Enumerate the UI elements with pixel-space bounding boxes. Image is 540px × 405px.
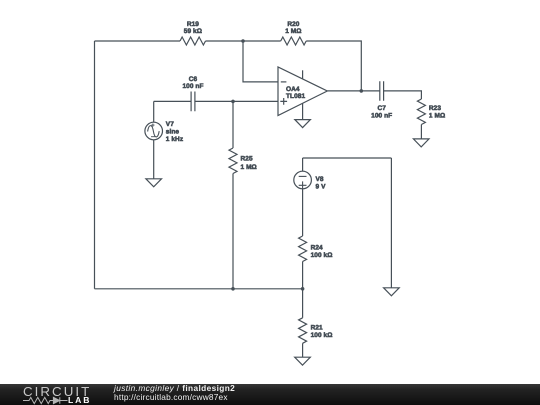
wire left rail <box>94 41 96 289</box>
wire R24 to node D <box>302 262 304 289</box>
resistor R23 <box>417 99 425 125</box>
wire R20 to output node <box>306 41 361 91</box>
resistor R21 <box>299 318 307 344</box>
capacitor C7 <box>380 81 384 101</box>
svg-text:V8: V8 <box>316 175 324 183</box>
wire node B down to R25 <box>232 101 234 148</box>
ground under V7 <box>146 179 162 187</box>
wire node A to op-amp inverting input <box>243 41 278 82</box>
resistor R19 <box>180 37 206 45</box>
svg-text:100 kΩ: 100 kΩ <box>311 251 333 259</box>
wire right branch down <box>390 158 392 288</box>
wire top from left rail to R19 <box>95 40 181 42</box>
wire R19 to R20 <box>206 40 281 42</box>
svg-text:R23: R23 <box>429 104 441 112</box>
credit line 1 <box>114 384 235 392</box>
svg-text:R24: R24 <box>311 243 323 251</box>
wire V8 top rail <box>303 157 392 159</box>
svg-text:V7: V7 <box>166 120 174 128</box>
svg-text:1 MΩ: 1 MΩ <box>285 27 301 35</box>
wire V7 to C6 <box>154 100 191 102</box>
capacitor C6 <box>191 92 195 112</box>
svg-text:100 nF: 100 nF <box>371 111 392 119</box>
wire C6 to op-amp non-inverting input <box>195 100 278 102</box>
resistor R20 <box>281 37 307 45</box>
voltage source V7 <box>145 101 163 178</box>
svg-text:59 kΩ: 59 kΩ <box>184 27 202 35</box>
resistor R24 <box>299 236 307 262</box>
junction node C (R25/bottom rail) <box>231 287 235 291</box>
svg-text:100 nF: 100 nF <box>182 82 203 90</box>
svg-text:1 kHz: 1 kHz <box>166 135 184 143</box>
wire R23 to ground <box>420 125 422 139</box>
svg-text:R25: R25 <box>241 155 253 163</box>
ground under op-amp <box>295 120 311 128</box>
svg-text:C7: C7 <box>377 104 385 112</box>
logo doodle wire resistor diode <box>23 396 71 405</box>
ground under R23 <box>413 139 429 147</box>
ground under R21 <box>295 357 311 365</box>
CircuitLab logo LAB <box>68 396 91 405</box>
junction node B (C6/R25/non-inverting) <box>231 100 235 104</box>
op-amp OA4 <box>278 67 327 120</box>
junction node D (R24/R21/bottom rail) <box>301 287 305 291</box>
svg-text:R19: R19 <box>187 20 199 28</box>
svg-text:C6: C6 <box>189 75 197 83</box>
svg-text:R21: R21 <box>311 323 323 331</box>
svg-text:1 MΩ: 1 MΩ <box>241 163 257 171</box>
ground right branch <box>384 288 400 296</box>
svg-text:sine: sine <box>166 128 179 136</box>
resistor R25 <box>229 148 237 174</box>
junction node A (R19/R20/inverting input) <box>241 39 245 43</box>
svg-text:TL081: TL081 <box>286 92 305 100</box>
wire op-amp output to C7 <box>327 90 380 92</box>
svg-text:100 kΩ: 100 kΩ <box>311 331 333 339</box>
wire bottom rail <box>95 288 303 290</box>
CircuitLab logo CIRCUIT <box>23 385 91 398</box>
wire C7 to R23 <box>384 91 422 99</box>
voltage source V8 <box>294 158 312 236</box>
footer bar <box>0 384 540 405</box>
wire R21 to ground <box>302 343 304 357</box>
junction output node <box>360 89 364 93</box>
svg-text:9 V: 9 V <box>316 183 326 191</box>
wire node D to R21 <box>302 289 304 318</box>
wire R25 to bottom rail <box>232 174 234 289</box>
svg-text:1 MΩ: 1 MΩ <box>429 111 445 119</box>
svg-text:R20: R20 <box>287 20 299 28</box>
credit line 2 <box>114 393 228 401</box>
